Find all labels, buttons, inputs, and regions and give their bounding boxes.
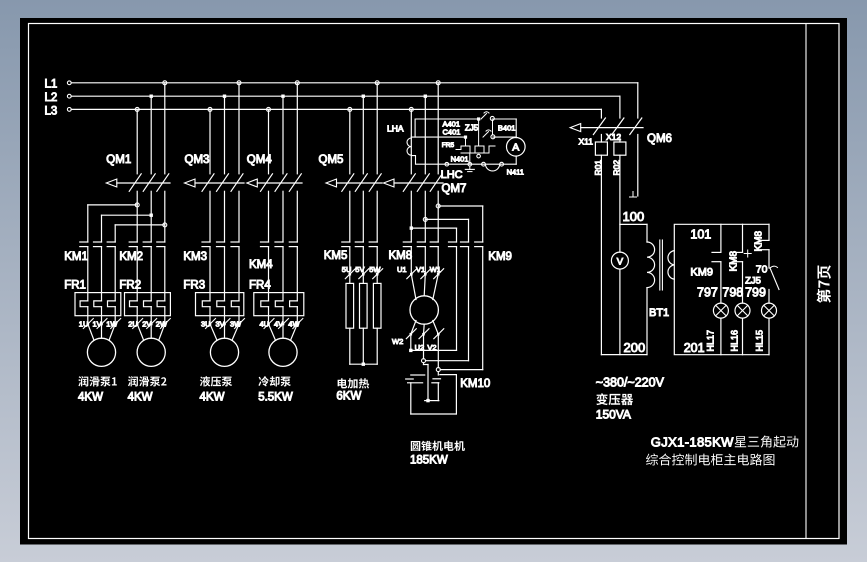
svg-text:100: 100 — [623, 209, 645, 224]
svg-text:70: 70 — [756, 263, 768, 275]
thermal element FR5 — [442, 121, 495, 164]
current transformer LHA — [387, 124, 411, 156]
ground symbol — [445, 162, 474, 171]
node 200 — [601, 340, 647, 355]
svg-text:N401: N401 — [451, 154, 469, 163]
junction dots L2 rail — [150, 95, 428, 98]
wire R01 down — [600, 155, 602, 354]
terminal labels 5U 5V 5W — [342, 247, 383, 284]
svg-text:798: 798 — [722, 286, 743, 300]
node L2 — [45, 92, 72, 104]
wires QM4 branch — [269, 83, 298, 242]
wires FR2 branch verticals — [137, 247, 165, 324]
thermal relay FR4 — [249, 280, 304, 316]
terminal labels 4U 4V 4W — [260, 319, 303, 329]
svg-text:L3: L3 — [45, 105, 58, 117]
svg-text:L1: L1 — [45, 79, 58, 91]
svg-text:X11: X11 — [579, 137, 594, 147]
circuit breaker QM5 — [319, 154, 383, 191]
wire converge to motor 1 — [88, 324, 115, 340]
svg-text:KM8: KM8 — [389, 250, 413, 262]
meter circuit box — [411, 119, 516, 164]
wire converge to motor 2 — [137, 324, 165, 340]
wire transformer primary return — [646, 288, 648, 355]
contactor KM8 main contacts — [389, 242, 439, 262]
contactor KM4 main contacts — [249, 242, 297, 271]
svg-text:LHA: LHA — [387, 124, 404, 134]
contact KM8 + relay ZJ5 delayed contact — [745, 224, 779, 303]
wire converge to motor 3 — [210, 324, 239, 340]
svg-text:FR3: FR3 — [183, 280, 205, 292]
thermal relay FR2 — [119, 280, 170, 316]
lamp HL16 — [722, 286, 750, 355]
svg-text:KM8: KM8 — [754, 231, 765, 252]
motor M3 — [210, 338, 238, 366]
wire L2 — [71, 95, 620, 97]
wires FR1 branch verticals — [88, 247, 115, 324]
svg-text:ZJ5: ZJ5 — [465, 124, 479, 133]
circuit breaker QM4 — [247, 154, 302, 191]
svg-text:A: A — [512, 142, 519, 154]
transformer BT1 — [647, 240, 674, 319]
label N401 — [451, 154, 469, 163]
lamp HL17 — [697, 286, 728, 355]
svg-text:185KW: 185KW — [410, 455, 448, 467]
svg-text:QM7: QM7 — [442, 183, 467, 195]
motor M4 — [269, 338, 297, 366]
terminal labels 3U 3V 3W — [201, 319, 245, 329]
motor M1 — [87, 338, 115, 366]
contact KM8 lamp branch — [728, 224, 751, 303]
wires FR3 branch verticals — [210, 247, 239, 324]
thermal relay FR1 — [64, 280, 121, 316]
terminal labels W2 U2 V2 — [392, 321, 444, 353]
node L1 — [45, 79, 72, 91]
svg-text:HL15: HL15 — [755, 330, 765, 352]
label X12 — [606, 132, 621, 142]
wires QM1 drops from rails — [137, 83, 165, 174]
resistor R02 — [612, 135, 626, 176]
svg-text:GJX1-185KW: GJX1-185KW — [651, 435, 734, 450]
svg-text:5.5KW: 5.5KW — [258, 392, 293, 404]
svg-text:5V: 5V — [355, 265, 364, 274]
svg-text:L2: L2 — [45, 92, 58, 104]
circuit breaker QM7 — [384, 174, 467, 195]
contactor KM2 main contacts — [119, 242, 164, 263]
heater elements R (电加热) — [346, 283, 381, 366]
ammeter A — [507, 138, 526, 157]
svg-text:C401: C401 — [443, 127, 461, 136]
svg-text:LHC: LHC — [441, 169, 463, 181]
terminal labels 1U 1V 1W — [79, 319, 121, 329]
svg-text:W2: W2 — [392, 337, 403, 346]
svg-text:150VA: 150VA — [596, 408, 631, 422]
voltmeter V — [611, 155, 628, 354]
resistor R01 — [593, 135, 607, 176]
label 圆锥机电机 185KW — [410, 441, 465, 467]
circuit breaker QM3 — [185, 154, 245, 191]
svg-text:KM1: KM1 — [64, 251, 88, 263]
terminal labels 2U 2V 2W — [128, 319, 170, 329]
contactor KM3 main contacts — [183, 242, 239, 263]
svg-text:KM4: KM4 — [249, 259, 273, 271]
contact KM9 lamp branch — [690, 224, 721, 303]
svg-text:6KW: 6KW — [336, 391, 361, 403]
wire taps QM7 to KM9 — [410, 191, 483, 242]
contactor KM9 main contacts — [449, 242, 512, 263]
wires rails to QM6 — [601, 83, 637, 118]
svg-text:QM5: QM5 — [319, 154, 344, 166]
svg-text:4KW: 4KW — [128, 392, 153, 404]
svg-text:QM6: QM6 — [647, 133, 672, 145]
page label 第7页 — [817, 265, 831, 303]
svg-text:FR2: FR2 — [119, 280, 141, 292]
wires QM7 drops from rails — [411, 83, 438, 174]
svg-text:BT1: BT1 — [649, 307, 669, 319]
wire converge to motor 4 — [269, 324, 298, 340]
label ~380/~220V 变压器 150VA — [596, 376, 665, 422]
svg-text:KM2: KM2 — [119, 251, 143, 263]
svg-text:QM1: QM1 — [106, 154, 131, 166]
node L3 — [45, 105, 72, 117]
svg-text:5U: 5U — [342, 265, 352, 274]
label 润滑泵1 4KW — [78, 376, 117, 403]
svg-text:V: V — [617, 256, 624, 267]
svg-text:KM5: KM5 — [324, 250, 348, 262]
svg-text:5W: 5W — [369, 265, 381, 274]
contactor KM5 main contacts — [324, 242, 378, 262]
wire ZJ5 contact link — [477, 120, 493, 158]
svg-text:KM9: KM9 — [488, 251, 512, 263]
svg-text:N411: N411 — [507, 168, 524, 177]
contactor KM10 (star point) — [406, 375, 491, 390]
svg-text:FR1: FR1 — [64, 280, 86, 292]
motor M2 — [137, 338, 165, 366]
svg-text:QM3: QM3 — [185, 154, 210, 166]
wires QM5 branch — [350, 83, 377, 242]
svg-text:HL16: HL16 — [730, 330, 740, 352]
svg-text:101: 101 — [690, 228, 711, 242]
svg-text:HL17: HL17 — [706, 330, 716, 352]
svg-text:X12: X12 — [606, 132, 621, 142]
wire hop N411 — [482, 162, 524, 176]
svg-text:U1: U1 — [397, 265, 407, 274]
svg-text:797: 797 — [697, 286, 718, 300]
wire converge to main motor — [411, 274, 438, 299]
label 润滑泵2 4KW — [128, 376, 167, 403]
wires QM3 branch — [210, 83, 239, 242]
contactor KM1 main contacts — [64, 242, 115, 263]
relay ZJ5 contact upper — [465, 112, 494, 133]
svg-text:4KW: 4KW — [200, 392, 225, 404]
label 电加热 6KW — [336, 378, 369, 402]
svg-text:200: 200 — [624, 340, 646, 355]
node 100 — [623, 135, 645, 225]
label X11 — [579, 137, 594, 147]
svg-text:KM9: KM9 — [690, 266, 713, 278]
relay contact lower rail — [464, 130, 495, 139]
wires star point bus — [411, 365, 457, 415]
wires delta connection to KM9 — [409, 247, 483, 372]
circuit breaker QM1 — [106, 154, 170, 191]
thermal relay FR3 — [183, 280, 243, 316]
labels A401 C401 B401 — [443, 119, 516, 136]
wire node100 to transformer — [620, 224, 647, 242]
svg-text:4KW: 4KW — [78, 392, 103, 404]
title GJX1-185KW星三角起动 — [651, 435, 799, 450]
circuit breaker QM6 — [570, 118, 672, 145]
label 冷却泵 5.5KW — [258, 376, 293, 403]
wires FR4 branch verticals — [269, 247, 298, 324]
svg-text:V1: V1 — [416, 265, 425, 274]
wire L1 — [71, 82, 638, 84]
lamp panel rails 101/201 — [674, 224, 769, 354]
lamp HL15 — [745, 286, 776, 355]
wire L3 — [71, 108, 601, 110]
svg-text:799: 799 — [745, 286, 766, 300]
svg-text:KM8: KM8 — [728, 251, 739, 272]
junction dots L3 rail — [135, 107, 413, 111]
title 综合控制电柜主电路图 — [646, 454, 774, 466]
label LHC — [441, 169, 463, 181]
label 液压泵 4KW — [200, 376, 233, 403]
svg-text:~380/~220V: ~380/~220V — [596, 376, 665, 390]
junction dots L1 rail — [163, 81, 440, 85]
svg-text:KM3: KM3 — [183, 251, 207, 263]
svg-text:B401: B401 — [498, 124, 516, 133]
svg-text:KM10: KM10 — [460, 378, 490, 390]
main motor (185KW) — [410, 296, 438, 324]
terminal labels U1 V1 W1 — [397, 247, 444, 279]
svg-text:FR5: FR5 — [442, 142, 455, 149]
wire elbow taps QM1 to KM1 branch — [88, 191, 167, 242]
svg-text:201: 201 — [684, 341, 705, 355]
